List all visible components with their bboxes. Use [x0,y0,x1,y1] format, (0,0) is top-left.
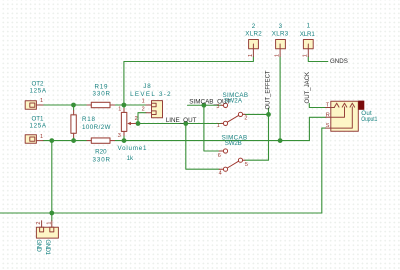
wire XLR3 drop [279,57,281,141]
junction R18 bottom [71,138,76,143]
connector XLR3 [276,40,286,57]
svg-text:Volume1: Volume1 [118,145,148,152]
connector GND1 [36,221,58,238]
sleeve contact [331,107,353,128]
junction wiper [136,121,141,126]
svg-text:XLR2: XLR2 [245,30,262,37]
wire XLR1 to GNDS [308,57,328,62]
svg-text:SW2B: SW2B [225,140,242,147]
resistor R18 [71,111,76,138]
svg-text:2: 2 [36,222,42,225]
wire LINE_OUT [138,123,221,125]
svg-text:1: 1 [142,99,145,105]
svg-text:OUT_EFFECT: OUT_EFFECT [265,71,272,110]
jack Output1 [326,101,365,132]
junction dot A [71,103,76,108]
wire XLR2 down-left drop to junction B [124,57,254,106]
svg-text:R18: R18 [82,116,96,123]
wire R19 right to junction B [115,104,124,106]
wire GND1 pin1 [51,213,53,221]
wire OUT_EFFECT vertical [245,108,269,160]
wire SIMCAB_OUT [188,104,221,106]
svg-text:1k: 1k [127,155,134,162]
svg-text:OUT_JACK: OUT_JACK [304,72,311,104]
wire bottom rail OT1 to R20 [43,140,87,142]
svg-text:3: 3 [279,23,283,30]
wire pot RV bottom [123,136,125,141]
junction XLR3 rail [278,138,283,143]
svg-text:1: 1 [40,134,43,140]
wire SW2A pin2 to OUT_EFFECT [245,113,269,115]
junction SIMCAB_OUT drop [202,103,207,108]
svg-text:R20: R20 [95,148,107,155]
svg-text:1: 1 [40,98,43,104]
wire junction A to R19 left [74,104,88,106]
svg-text:125A: 125A [30,87,47,94]
wire J8 pin2 to wiper junction [138,113,146,124]
svg-text:1: 1 [248,54,254,57]
connector XLR2 [249,40,259,57]
svg-text:2: 2 [244,115,247,121]
svg-text:5: 5 [245,162,248,168]
svg-text:2: 2 [135,116,138,122]
ring contact [331,107,345,117]
svg-text:GND: GND [35,239,42,252]
junction GND connector [49,211,54,216]
svg-text:1: 1 [307,23,311,30]
svg-text:XLR1: XLR1 [300,31,316,38]
wire jack S to ground [322,128,326,213]
wire OT2 pin to junction A [43,104,74,106]
junction LINE_OUT drop [183,121,188,126]
svg-text:330R: 330R [93,156,111,163]
svg-text:125A: 125A [30,123,47,130]
svg-text:XLR3: XLR3 [272,30,289,37]
tip contact [331,107,335,109]
svg-text:J8: J8 [143,83,151,90]
svg-text:LEVEL 3-2: LEVEL 3-2 [130,91,171,98]
svg-text:4: 4 [219,170,222,176]
wire bottom rail R20 to jack R riser [115,140,310,142]
svg-text:330R: 330R [93,91,111,98]
wire bottom ground horizontal [0,212,322,214]
connector OT2 [25,101,43,110]
connector OT1 [25,135,43,144]
junction pot bottom [122,138,127,143]
svg-text:OT1: OT1 [32,116,45,123]
svg-text:1: 1 [46,222,52,225]
svg-text:LINE_OUT: LINE_OUT [166,117,197,124]
junction dot B [122,103,127,108]
wire OUT_JACK to T [309,104,325,108]
svg-text:R: R [326,112,330,118]
svg-text:GND1: GND1 [44,239,51,255]
switch SW2A [221,103,245,125]
svg-text:100R/2W: 100R/2W [82,124,111,131]
potentiometer Volume1 [121,108,135,135]
svg-text:SW2A: SW2A [224,98,243,105]
svg-text:2: 2 [142,107,145,113]
svg-text:3: 3 [216,104,219,110]
wire pot RV top [123,105,125,108]
svg-text:3: 3 [118,133,121,139]
wire GND drop [51,141,53,213]
wire wiper to junction [136,123,139,125]
svg-text:GNDS: GNDS [330,58,348,65]
wire LINE_OUT drop to SW2B pin4 [186,124,219,170]
junction OUT_EFFECT tee [266,112,271,117]
connector XLR1 [303,40,313,57]
connector J8 [146,101,163,118]
svg-text:S: S [326,123,330,129]
wire R18 bottom [73,138,75,141]
svg-text:2: 2 [252,23,256,30]
svg-text:6: 6 [218,153,221,159]
switch SW2B [219,149,245,171]
wire rail riser to jack R [309,117,325,140]
resistor R20 [87,138,115,143]
svg-text:1: 1 [118,107,121,113]
svg-text:1: 1 [302,54,308,57]
svg-text:Ouput1: Ouput1 [361,116,377,123]
svg-text:1: 1 [217,123,220,129]
junction GND drop top [49,138,54,143]
wire R18 top [73,105,75,111]
resistor R19 [87,102,115,107]
wire SIMCAB_OUT drop to SW2B pin6 [204,105,219,151]
svg-text:1: 1 [275,54,281,57]
wire junction B to J8 pin1 [124,104,146,106]
